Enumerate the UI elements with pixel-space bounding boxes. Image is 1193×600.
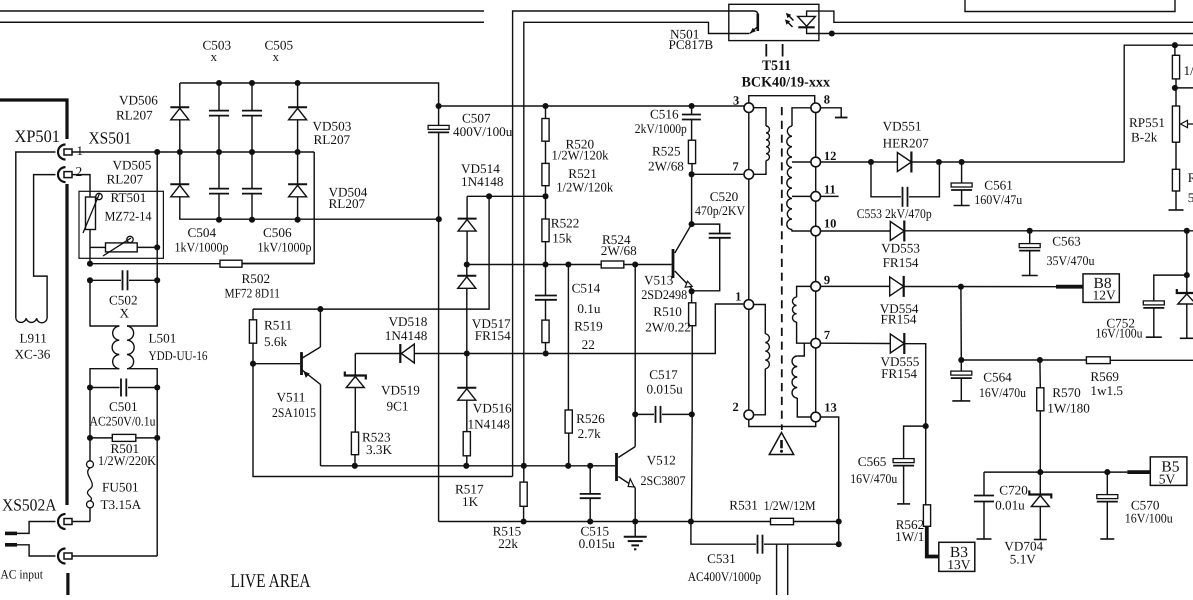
wire rail 12V [821, 285, 1057, 287]
wire opto emitter line [524, 22, 750, 465]
label B8 [1094, 275, 1112, 292]
label C553 [857, 206, 932, 221]
wire C564 col [960, 287, 962, 360]
aux winding 1-2 [754, 305, 770, 415]
node C752 tap [1184, 272, 1190, 278]
resistor R525 [688, 140, 695, 163]
label 22 [582, 337, 595, 352]
capacitor C503 [209, 83, 229, 152]
wire V513 emitter [691, 289, 693, 303]
diode VD517 [457, 265, 476, 354]
node VD517 top [464, 261, 470, 267]
node R520 top [542, 103, 548, 109]
label 2.7k [578, 426, 601, 441]
svg-text:V512: V512 [647, 453, 676, 468]
node C502 right [154, 277, 160, 283]
label R570 val [1047, 401, 1090, 416]
label 2SD2498 [641, 287, 687, 302]
node mid bus RT [154, 149, 160, 155]
primary winding [754, 108, 770, 175]
pin 7s circle [811, 338, 821, 348]
node mid bus C503 [216, 149, 222, 155]
label R562 [896, 517, 925, 532]
node R510-C517 [689, 411, 695, 417]
RT501 box [79, 191, 163, 258]
label R502 [242, 271, 271, 286]
label pin9 [824, 273, 830, 287]
label C503 x [211, 49, 218, 64]
label PC817B [669, 37, 714, 52]
diode VD506 [170, 83, 189, 152]
label R525 val [648, 159, 684, 174]
label R501 val [98, 453, 156, 468]
thick lead B8 [1056, 285, 1083, 289]
wire R517 bottom [466, 456, 468, 466]
svg-text:2SC3807: 2SC3807 [641, 473, 686, 488]
label VD555 val [881, 366, 917, 381]
label R569 [1090, 369, 1119, 384]
label HER207 [883, 136, 930, 151]
label C720 val [995, 498, 1025, 513]
svg-text:C514: C514 [572, 281, 601, 296]
label pin11 [824, 183, 836, 197]
svg-text:FR154: FR154 [881, 312, 917, 327]
capacitor C502 [90, 270, 157, 290]
svg-text:XP501: XP501 [15, 126, 61, 146]
transformer pin column right [815, 113, 817, 413]
capacitor C563 [1019, 231, 1040, 276]
label C515 [581, 524, 610, 539]
label XC-36 [15, 347, 51, 362]
svg-text:RL207: RL207 [314, 132, 351, 147]
thick live boundary top [0, 100, 67, 139]
node base bus R522 [542, 261, 548, 267]
svg-text:HER207: HER207 [883, 136, 930, 151]
svg-text:AC input: AC input [1, 568, 44, 582]
wire rail 13V [821, 343, 926, 505]
svg-text:VD518: VD518 [389, 314, 428, 329]
wire conn2 right [72, 555, 157, 557]
label VD518 val [385, 328, 428, 343]
pin 8 circle [811, 103, 821, 113]
wire R511 col [252, 309, 254, 320]
label R510 [653, 304, 682, 319]
wire V512 emitter [634, 488, 636, 522]
svg-text:R510: R510 [653, 304, 682, 319]
label C516 val [635, 121, 687, 136]
wire degauss stub 2 [787, 544, 789, 595]
node V513 emitter [689, 288, 695, 294]
pin 12 circle [811, 157, 821, 167]
svg-text:C506: C506 [263, 225, 292, 240]
wire pin2 to pin13 bottom [749, 420, 816, 427]
svg-text:C504: C504 [188, 225, 217, 240]
svg-text:1W/1: 1W/1 [895, 529, 924, 544]
label VD554 [880, 301, 919, 316]
svg-text:R502: R502 [242, 271, 271, 286]
svg-text:9: 9 [824, 273, 830, 287]
svg-text:R570: R570 [1052, 385, 1081, 400]
wire R526 bottom [568, 433, 570, 466]
wire VD518 line [355, 353, 400, 355]
box B8 [1083, 274, 1119, 303]
resistor R55b [1172, 169, 1179, 191]
diode VD554 [890, 276, 904, 297]
svg-text:3.3K: 3.3K [366, 442, 392, 457]
svg-text:1K: 1K [462, 494, 479, 509]
node R519 bottom [543, 350, 549, 356]
node R501 left [87, 435, 93, 441]
wire pin13 right [821, 417, 839, 544]
svg-text:T3.15A: T3.15A [101, 497, 142, 512]
node R526 bottom [565, 463, 571, 469]
svg-text:0.1u: 0.1u [577, 301, 600, 316]
svg-text:C517: C517 [649, 367, 678, 382]
wire L501 left top [90, 280, 119, 326]
node B8 rail C564 [958, 284, 964, 290]
node VD551 cathode [936, 159, 942, 165]
svg-text:LIVE AREA: LIVE AREA [231, 571, 311, 592]
wire V511 emitter [320, 385, 322, 466]
diode VD516 [457, 354, 476, 432]
label R517 [455, 482, 484, 497]
zener VD705 [1177, 289, 1193, 338]
resistor R531 [771, 518, 794, 524]
inductor L501 right [127, 326, 134, 369]
label C561 val [974, 192, 1022, 207]
svg-text:1/: 1/ [1184, 63, 1193, 78]
label RT501 [111, 190, 147, 205]
wire rail 16V [961, 359, 1193, 361]
label RP551 [1129, 115, 1165, 130]
diode VD518 [400, 344, 414, 363]
wire rail 5V [984, 471, 1127, 473]
node ref mid [486, 193, 492, 199]
wire R520-R521 [545, 141, 547, 163]
connector XS502A pin1 [58, 514, 72, 529]
wire R502 line [90, 263, 314, 265]
wire R511 bottom [252, 343, 254, 364]
resistor R502 [220, 260, 242, 267]
node R515 bottom [521, 518, 527, 524]
label VD517 [472, 316, 511, 331]
label R partial [1188, 170, 1193, 185]
pin 8 ground stub [821, 108, 848, 118]
label 1K [462, 494, 479, 509]
node bottom bus C507 col [436, 216, 442, 222]
thick lead B5 [1127, 470, 1150, 474]
label R570 [1052, 385, 1081, 400]
resistor R569 [1086, 357, 1110, 364]
resistor R519 [542, 320, 549, 343]
label C507 [462, 111, 491, 126]
label R523 [362, 430, 391, 445]
svg-text:V513: V513 [644, 273, 674, 288]
label R562 val [895, 529, 924, 544]
label VD554 val [881, 312, 917, 327]
label C503 [203, 38, 232, 53]
label C720 [999, 483, 1028, 498]
label C565 val [850, 471, 897, 486]
connector XS502A pin2 [58, 549, 72, 564]
svg-text:13V: 13V [947, 557, 971, 572]
secondary winding 7-13 [792, 343, 811, 417]
capacitor C501 [90, 379, 157, 397]
resistor R524 [601, 261, 624, 268]
label pin13 [824, 401, 837, 415]
label pin2 [76, 164, 83, 179]
svg-text:1/2W/12M: 1/2W/12M [764, 498, 816, 513]
wire therm2 right [137, 246, 157, 248]
resistor R510 [689, 303, 696, 326]
label R515 [493, 524, 522, 539]
label VD555 [881, 354, 920, 369]
capacitor C564 [951, 360, 972, 401]
label B5 [1161, 459, 1179, 476]
capacitor C506 [242, 152, 262, 220]
wire R523 bottom [354, 455, 356, 466]
label VD516 [473, 401, 512, 416]
label R531 [729, 498, 758, 513]
svg-text:XS502A: XS502A [2, 496, 57, 515]
node C520 tap [689, 221, 695, 227]
capacitor C514 [535, 265, 557, 321]
svg-text:1w1.5: 1w1.5 [1090, 383, 1123, 398]
thick lead B3 [927, 526, 939, 556]
svg-text:C553 2kV/470p: C553 2kV/470p [857, 206, 932, 221]
label 9C1 [387, 399, 409, 414]
label 12V [1093, 288, 1117, 303]
label pin1t [735, 290, 741, 304]
label FU501 [102, 480, 139, 495]
pin 10 circle [811, 226, 821, 236]
label 22k [498, 536, 518, 551]
label C504 [188, 225, 217, 240]
wire R501 col to conn2 [156, 438, 158, 556]
secondary tap 11 [792, 195, 811, 197]
AC plug blade 1 [5, 532, 17, 536]
transformer core dash marks [766, 44, 782, 57]
svg-text:R531: R531 [729, 498, 758, 513]
node emitter bus R515 [521, 463, 527, 469]
label VD514 val [461, 174, 504, 189]
wire RT col right [156, 152, 158, 280]
label 0.1u [577, 301, 600, 316]
wire degauss stub 1 [776, 544, 778, 595]
label C507 val [453, 124, 513, 139]
wire R510 bottom [691, 326, 694, 522]
warning triangle [769, 433, 793, 455]
wire opto col return [253, 364, 513, 477]
label 5 partial [1188, 190, 1193, 205]
svg-text:2kV/1000p: 2kV/1000p [635, 121, 687, 136]
svg-text:10: 10 [824, 217, 837, 231]
svg-text:FR154: FR154 [881, 366, 917, 381]
node C516 top [689, 103, 695, 109]
label R520 val [552, 148, 609, 163]
capacitor C565 [893, 426, 926, 504]
label VD519 [381, 383, 420, 398]
pin 3 circle [744, 103, 754, 113]
inductor L501 left [112, 326, 119, 369]
capacitor C504 [209, 152, 229, 220]
wire rail 160V [821, 161, 1125, 163]
node mid bus VD503 [295, 149, 301, 155]
svg-text:1: 1 [77, 143, 84, 158]
node 35V right col [1184, 228, 1190, 234]
resistor R517 [463, 432, 470, 456]
svg-text:R522: R522 [551, 216, 580, 231]
label 15k [552, 231, 572, 246]
label R510 val [645, 320, 691, 335]
label 1/2W partial [1184, 63, 1193, 78]
capacitor C517 [635, 406, 692, 423]
wire R521 bottom [545, 186, 547, 197]
opto phototransistor [750, 14, 758, 34]
diode VD551 [897, 152, 911, 173]
svg-text:VD551: VD551 [883, 119, 922, 134]
thermistor RT501a [83, 193, 102, 233]
resistor R523 [351, 432, 358, 455]
wire fuse to conn1 [72, 521, 90, 523]
opto light arrows [785, 13, 794, 27]
node ref right [542, 193, 548, 199]
svg-text:9C1: 9C1 [387, 399, 409, 414]
node bot bus VD504 [295, 217, 301, 223]
svg-text:16V/100u: 16V/100u [1096, 326, 1143, 341]
svg-text:RT501: RT501 [111, 190, 147, 205]
label R531 val [764, 498, 816, 513]
svg-text:2SA1015: 2SA1015 [272, 405, 316, 420]
node base bus V512 [632, 261, 638, 267]
wire C501-R501 left [89, 388, 91, 438]
connector XS501 pin2 [58, 167, 72, 182]
svg-text:x: x [273, 49, 280, 64]
svg-text:3: 3 [733, 94, 739, 108]
capacitor C531 [691, 522, 839, 554]
transistor V513 [673, 224, 692, 288]
wire base bus [467, 264, 672, 266]
svg-text:2.7k: 2.7k [578, 426, 601, 441]
node C517 left [632, 411, 638, 417]
label VD506 [119, 93, 158, 108]
secondary tap 12 [792, 161, 811, 163]
svg-text:5.6k: 5.6k [264, 334, 287, 349]
label VD517 val [475, 328, 511, 343]
label YDD-UU-16 [149, 348, 208, 363]
label R569 val [1090, 383, 1123, 398]
label C505 [265, 38, 294, 53]
svg-text:V511: V511 [277, 390, 306, 405]
wire VD519 top [354, 354, 356, 376]
label pin7p [733, 160, 739, 174]
svg-text:C563: C563 [1052, 234, 1081, 249]
label VD505 [113, 158, 152, 173]
label 13V [947, 557, 971, 572]
svg-text:22k: 22k [498, 536, 518, 551]
node top bus C505 [249, 80, 255, 86]
label C516 [650, 107, 679, 122]
wire R522 bottom [545, 242, 547, 265]
pin 9 circle [811, 282, 821, 292]
svg-text:R525: R525 [652, 144, 681, 159]
capacitor C516 [682, 106, 701, 140]
label R524 val [601, 243, 637, 258]
svg-text:2W/68: 2W/68 [601, 243, 637, 258]
pin 7p circle [744, 170, 754, 180]
label MF72 8D11 [225, 286, 281, 301]
secondary winding 9-7 [792, 286, 810, 343]
opto LED D1 [798, 16, 816, 27]
label N501 [670, 27, 699, 42]
potentiometer RP551 [1172, 88, 1179, 169]
label 5.6k [264, 334, 287, 349]
label C501 val [90, 414, 156, 429]
resistor R521 [542, 163, 549, 185]
diode VD555 [890, 333, 904, 354]
svg-text:RL207: RL207 [107, 172, 144, 187]
label VD553 val [883, 255, 919, 270]
wire R55b bottom [1175, 191, 1177, 210]
node R570 top [1037, 357, 1043, 363]
label C504 val [175, 240, 229, 255]
node VD704 top [1037, 469, 1043, 475]
node C501 right [154, 384, 160, 390]
svg-text:C516: C516 [650, 107, 679, 122]
pin 1 circle [744, 300, 754, 310]
box B3 [939, 542, 975, 571]
label pin12 [824, 149, 837, 163]
label XS501 [89, 129, 132, 148]
label pin3 [733, 94, 739, 108]
node R517 bottom [463, 463, 469, 469]
svg-text:8: 8 [824, 93, 830, 107]
resistor R562 [923, 505, 930, 527]
node V512 emitter gnd [632, 518, 638, 524]
svg-text:5.1V: 5.1V [1010, 552, 1036, 567]
wire R522 top [545, 196, 547, 219]
thick live boundary mid [65, 184, 68, 505]
label C563 [1052, 234, 1081, 249]
svg-text:T511: T511 [762, 58, 791, 74]
svg-text:C531: C531 [707, 551, 736, 566]
label B3 [950, 544, 968, 561]
thermistor RT501b [103, 236, 137, 256]
label MZ72-14 [105, 209, 152, 224]
svg-text:1N4148: 1N4148 [461, 174, 504, 189]
wire R511 bus [253, 196, 489, 309]
node therm2 right [154, 244, 160, 250]
svg-text:1N4148: 1N4148 [468, 417, 511, 432]
svg-text:R5: R5 [1188, 170, 1193, 185]
label R526 [576, 411, 605, 426]
label R511 [264, 318, 292, 333]
node top bus VD503 [295, 80, 301, 86]
svg-text:2: 2 [733, 400, 739, 414]
connector XS501 pin1 [58, 145, 72, 160]
thick live boundary bottom [66, 573, 69, 595]
wire V511 base [253, 363, 300, 365]
pin 2 circle [744, 410, 754, 420]
diode VD514 [458, 196, 477, 264]
label VD553 [881, 241, 920, 256]
node VD516 top [464, 350, 470, 356]
label VD518 [389, 314, 428, 329]
node C570 top [1104, 469, 1110, 475]
node V513 collector top [689, 171, 695, 177]
svg-text:35V/470u: 35V/470u [1047, 253, 1095, 268]
svg-text:R569: R569 [1090, 369, 1119, 384]
